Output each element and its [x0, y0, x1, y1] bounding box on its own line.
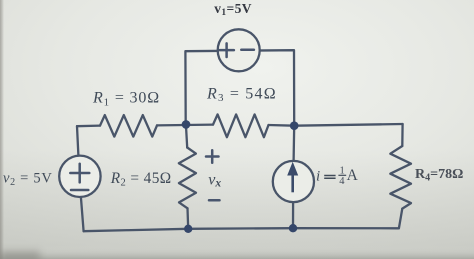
current source arrow	[287, 162, 298, 193]
svg-text:R1 = 30Ω: R1 = 30Ω	[92, 90, 160, 109]
wire: R4 top lead	[401, 124, 404, 146]
wire: left branch down to v2 source	[77, 126, 78, 156]
svg-text:R4=78Ω: R4=78Ω	[415, 167, 463, 184]
resistor R3	[213, 114, 269, 137]
wire: current source branch top lead	[292, 126, 295, 161]
current source circle	[273, 161, 314, 202]
resistor R4	[390, 146, 411, 209]
svg-text:A: A	[347, 167, 359, 184]
node C: bottom rail at R2	[184, 225, 192, 233]
v1 minus sign	[241, 49, 254, 52]
wire: R4 bottom lead	[399, 209, 402, 229]
vx minus sign	[209, 199, 220, 202]
bottom left dark corner	[0, 251, 40, 259]
bottom dark band	[0, 246, 474, 259]
resistor R2	[179, 148, 196, 209]
v2 minus sign	[71, 189, 88, 192]
node B: junction of R3/current source/top rail	[290, 121, 299, 130]
wire: top rail left lead	[77, 124, 100, 127]
svg-text:4: 4	[339, 176, 345, 187]
voltage source v2 circle	[59, 156, 100, 197]
svg-text:R2 = 45Ω: R2 = 45Ω	[110, 170, 172, 189]
wire: current source bottom lead	[292, 202, 294, 228]
svg-text:i: i	[316, 168, 320, 184]
voltage source v1 circle	[218, 29, 260, 71]
resistor R1	[100, 115, 157, 137]
wire: v2 bottom to bottom-left corner	[81, 197, 84, 231]
wire: R2 bottom lead	[186, 208, 189, 229]
node A: junction of R1/R3/R2	[182, 120, 191, 129]
node D: bottom rail at current source	[289, 224, 297, 232]
wire: R2 branch top lead	[186, 124, 187, 147]
left edge strip	[0, 0, 4, 259]
wire: R3 to right node and on to R4 corner	[269, 124, 403, 126]
svg-text:v1=5V: v1=5V	[214, 1, 252, 18]
wire: bottom rail	[84, 228, 399, 231]
wire: R1 to center node	[157, 123, 213, 126]
vx plus sign	[206, 150, 219, 163]
v2 plus sign	[70, 164, 89, 183]
wire: v1 loop (left riser, top run, right riser)	[185, 50, 294, 126]
svg-text:R3 = 54Ω: R3 = 54Ω	[206, 85, 277, 104]
v1 plus sign	[220, 43, 234, 57]
